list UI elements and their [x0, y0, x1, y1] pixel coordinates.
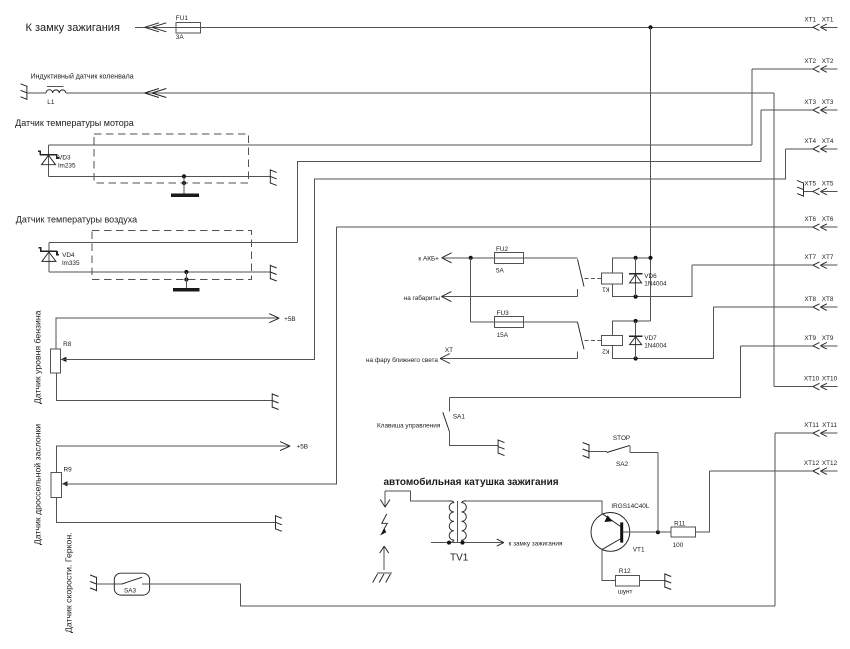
svg-text:XT7: XT7: [804, 254, 816, 261]
wire VD4 bottom to chassis: [49, 271, 270, 273]
fuse FU1 3A: [176, 15, 201, 41]
wire K2 coil bottom rail to XT8 riser: [613, 307, 714, 358]
wire SA1 to XT9 riser: [450, 346, 741, 398]
relay K1 contact blade: [578, 259, 585, 286]
node XT6 terminal pair: [804, 216, 837, 230]
node XT8 terminal pair: [804, 296, 837, 310]
wire K1 coil top rail: [613, 258, 651, 273]
svg-text:шунт: шунт: [618, 589, 633, 596]
svg-text:lm335: lm335: [62, 260, 80, 267]
svg-text:XT5: XT5: [804, 181, 816, 188]
wire down to earth bar (air temp): [185, 272, 187, 288]
svg-text:К2: К2: [602, 348, 610, 355]
svg-text:XT: XT: [445, 347, 453, 354]
switch SA2 STOP: [589, 435, 658, 468]
svg-text:XT1: XT1: [822, 16, 834, 23]
svg-text:К замку зажигания: К замку зажигания: [26, 22, 120, 34]
chassis ground below R9: [276, 515, 282, 531]
svg-text:R12: R12: [619, 568, 631, 575]
node XT7 terminal pair: [804, 254, 837, 268]
wire R9 top to +5V arrow: [56, 446, 290, 472]
node junction TV1 secondary bottom: [447, 541, 451, 545]
wire to XT1: [201, 26, 813, 28]
relay K2 contact pin: [577, 352, 579, 359]
wire to XT10: [774, 386, 813, 388]
wire to XT5: [804, 191, 813, 193]
svg-text:+5В: +5В: [297, 444, 309, 451]
svg-text:R9: R9: [64, 466, 73, 473]
svg-text:+5В: +5В: [284, 316, 296, 323]
wire TV1 bottom to ignition lock: [431, 542, 504, 544]
svg-text:XT9: XT9: [822, 335, 834, 342]
fuse FU3 15A: [494, 310, 523, 339]
wire branch down to FU3: [470, 258, 472, 322]
svg-text:VD6: VD6: [644, 273, 657, 280]
reed switch SA3: [114, 573, 149, 595]
node "к АКБ+" arrow: [418, 253, 451, 263]
node "на габариты" arrow: [404, 292, 452, 302]
wire K2 coil top rail: [613, 321, 651, 335]
svg-text:VT1: VT1: [633, 547, 645, 554]
svg-text:к замку зажигания: к замку зажигания: [509, 540, 563, 547]
node junction at box edge: [182, 181, 186, 185]
wire VD3 bottom to chassis: [49, 175, 271, 177]
dashed sensor box (motor temp): [94, 134, 248, 183]
node XT5 terminal pair: [804, 181, 837, 195]
svg-text:XT12: XT12: [822, 460, 838, 467]
wire XT3 riser: [760, 110, 762, 161]
chassis ground at SA2: [583, 443, 589, 459]
fuse FU2 5A: [494, 246, 523, 274]
wire AKB+ to K1 blade: [442, 257, 578, 259]
svg-text:VD4: VD4: [62, 252, 75, 259]
wire R9 bottom to chassis: [56, 498, 275, 523]
node junction TV1 primary bottom: [461, 541, 465, 545]
wire K1 contact to "на габариты": [441, 296, 577, 298]
svg-text:автомобильная катушка зажигани: автомобильная катушка зажигания: [384, 476, 559, 488]
node XT9 terminal pair: [804, 335, 837, 349]
svg-text:XT6: XT6: [822, 216, 834, 223]
wire R11 to XT12 riser: [696, 471, 710, 532]
svg-text:SA3: SA3: [124, 588, 137, 595]
node junction XT1-wire / vertical bus: [648, 25, 652, 29]
chassis ground below R8: [272, 393, 278, 409]
node junction gate / SA2: [656, 530, 660, 534]
node "к замку зажигания" arrow: [497, 539, 563, 547]
svg-text:IRGS14C40L: IRGS14C40L: [611, 503, 649, 510]
wire VD3 top to XT2 jog: [49, 144, 753, 146]
svg-text:К1: К1: [602, 286, 610, 293]
node XT3 terminal pair: [804, 99, 837, 113]
wire to XT4: [786, 148, 813, 150]
wire FU3 to K2 blade: [471, 321, 578, 323]
node XT12 terminal pair: [804, 460, 838, 474]
chassis ground at XT5: [797, 181, 803, 197]
svg-text:Индуктивный датчик коленвала: Индуктивный датчик коленвала: [31, 73, 134, 81]
svg-text:XT6: XT6: [804, 216, 816, 223]
svg-text:XT4: XT4: [822, 138, 834, 145]
diode VD3 lm235 (zener, temp sensor): [38, 145, 76, 176]
svg-text:SA2: SA2: [616, 461, 629, 468]
transistor VT1 IRGS14C40L: [591, 503, 650, 554]
node junction VD7 top: [634, 319, 638, 323]
wire to XT6: [337, 226, 813, 228]
svg-text:STOP: STOP: [613, 435, 630, 442]
svg-text:100: 100: [673, 542, 684, 549]
node XT10 terminal pair: [804, 376, 838, 390]
svg-text:XT1: XT1: [804, 16, 816, 23]
wire K2 contact to "на фару ближнего света": [440, 358, 578, 360]
wire to XT3: [761, 109, 813, 111]
wire to XT2: [752, 68, 813, 70]
svg-text:Клавиша управления: Клавиша управления: [377, 422, 441, 429]
svg-text:XT3: XT3: [804, 99, 816, 106]
node +5B arrow (R9): [280, 442, 308, 451]
svg-text:1N4004: 1N4004: [644, 343, 667, 350]
spark lightning symbol: [380, 514, 387, 536]
dashed sensor box (air temp): [92, 231, 251, 280]
wire from lock label to FU1: [135, 26, 201, 28]
spark gap electrode (down arrow): [380, 491, 390, 507]
ground earth bar (motor temp): [171, 193, 199, 196]
connector chevrons on L1 wire: [145, 89, 167, 98]
wire VD4 top to riser: [49, 242, 298, 244]
relay K1 contact pin: [577, 289, 579, 297]
wire vertical bus from XT1 wire down to relay K2 rail: [650, 27, 652, 321]
wire ground to L1: [27, 92, 46, 94]
svg-text:FU3: FU3: [497, 310, 510, 317]
diode VD4 lm335 (zener, temp sensor): [38, 243, 80, 272]
ground earth under spark gap: [373, 573, 393, 582]
diode VD7 1N4004: [629, 321, 667, 359]
node junction at air box edge: [184, 277, 188, 281]
wire coil HV step: [385, 491, 449, 501]
resistor R11 100: [671, 521, 695, 550]
node junction VD7 bottom: [634, 356, 638, 360]
wire to XT12: [709, 470, 813, 472]
chassis ground at R12: [665, 573, 671, 589]
svg-text:на фару ближнего света: на фару ближнего света: [366, 356, 438, 364]
svg-text:XT11: XT11: [822, 422, 837, 429]
wire R8 wiper to XT4 riser: [60, 149, 785, 360]
node junction on VD4 bottom wire: [184, 270, 188, 274]
svg-text:Датчик уровня бензина: Датчик уровня бензина: [33, 310, 43, 404]
svg-text:VD3: VD3: [58, 154, 71, 161]
node XT1 terminal pair: [804, 16, 837, 30]
node XT4 terminal pair: [804, 138, 837, 152]
svg-text:к АКБ+: к АКБ+: [418, 256, 439, 263]
transformer TV1 (ignition coil): [449, 501, 469, 564]
svg-text:lm235: lm235: [58, 162, 76, 169]
chassis ground right of air-temp box: [270, 265, 276, 281]
connector chevrons on ignition wire: [145, 23, 167, 32]
svg-text:XT8: XT8: [822, 296, 834, 303]
chassis ground below SA1: [498, 439, 504, 455]
chassis ground at SA3: [90, 575, 96, 591]
svg-text:VD7: VD7: [644, 335, 657, 342]
wire XT11 bus down: [774, 433, 776, 606]
svg-text:R11: R11: [674, 521, 686, 528]
node junction VD6 bottom: [634, 295, 638, 299]
wire XT2 riser: [751, 69, 753, 145]
svg-text:Датчик дроссельной заслонки: Датчик дроссельной заслонки: [33, 424, 43, 545]
wire R8 bottom to chassis: [57, 373, 273, 400]
svg-text:XT12: XT12: [804, 460, 820, 467]
svg-text:3A: 3A: [176, 34, 185, 41]
wire SA3 to XT11 bus: [150, 584, 776, 606]
svg-text:XT4: XT4: [804, 138, 816, 145]
svg-text:TV1: TV1: [450, 553, 469, 564]
svg-text:XT3: XT3: [822, 99, 834, 106]
chassis ground at L1: [21, 84, 27, 100]
node junction rail/bus: [648, 256, 652, 260]
relay K1 coil: [602, 273, 623, 292]
svg-text:XT9: XT9: [804, 335, 816, 342]
node +5B arrow (R8): [269, 314, 295, 323]
R8 wiper arrow: [61, 357, 67, 362]
wire L1 to right bus: [66, 92, 774, 94]
svg-text:15A: 15A: [497, 332, 509, 339]
svg-text:Датчик скорости. Геркон.: Датчик скорости. Геркон.: [64, 532, 74, 633]
svg-text:SA1: SA1: [453, 414, 466, 421]
wire R12 to chassis: [639, 580, 664, 582]
node XT2 terminal pair: [804, 58, 837, 72]
node junction on VD3 bottom wire: [182, 174, 186, 178]
wire SA2 to gate node: [657, 453, 659, 533]
resistor R8 (potentiometer, fuel level): [50, 341, 71, 373]
svg-text:XT7: XT7: [822, 254, 834, 261]
wire to XT8: [713, 306, 813, 308]
wire to XT7: [692, 264, 813, 266]
svg-text:Датчик температуры воздуха: Датчик температуры воздуха: [16, 214, 137, 224]
wire K1 coil bottom rail to XT7 riser: [613, 265, 692, 296]
svg-text:L1: L1: [47, 99, 55, 106]
svg-text:XT5: XT5: [822, 181, 834, 188]
node XT11 terminal pair: [804, 422, 838, 436]
spark gap electrode (up arrow): [380, 546, 389, 570]
node junction VD6 top: [634, 256, 638, 260]
wire riser VD4 to XT3 feed: [297, 161, 761, 242]
relay K2 coil: [602, 335, 623, 354]
svg-text:Датчик температуры мотора: Датчик температуры мотора: [15, 118, 134, 128]
resistor R9 (potentiometer, throttle): [51, 466, 72, 497]
inductor L1: [46, 87, 66, 106]
wire chassis to SA3: [97, 583, 122, 585]
R9 wiper arrow: [62, 481, 68, 486]
wire to XT9: [741, 345, 813, 347]
wire TV1 primary top to VT1 collector: [466, 501, 602, 514]
svg-text:XT8: XT8: [804, 296, 816, 303]
svg-text:XT11: XT11: [804, 422, 819, 429]
svg-text:на габариты: на габариты: [404, 294, 441, 302]
wire R9 wiper to XT6 rail: [61, 227, 336, 484]
wire R8 top to +5V arrow: [56, 318, 279, 349]
svg-text:XT2: XT2: [822, 58, 834, 65]
dashed mechanical link K2: [585, 339, 602, 341]
wire down to earth bar: [183, 176, 185, 193]
svg-text:XT10: XT10: [822, 376, 838, 383]
wire bus L1 down to XT10: [773, 93, 775, 387]
relay K2 contact blade: [578, 322, 585, 349]
chassis ground right of motor-temp box: [270, 169, 276, 185]
svg-text:1N4004: 1N4004: [644, 280, 667, 287]
svg-text:XT2: XT2: [804, 58, 816, 65]
svg-text:FU1: FU1: [176, 15, 189, 22]
node "на фару ближнего света" arrow with XT tag: [366, 347, 453, 364]
switch SA1 (control key): [443, 398, 498, 446]
svg-text:5A: 5A: [496, 267, 505, 274]
svg-text:R8: R8: [63, 341, 72, 348]
svg-text:XT10: XT10: [804, 376, 820, 383]
resistor R12 shunt: [616, 568, 640, 595]
svg-text:FU2: FU2: [496, 246, 509, 253]
ground earth bar (air temp): [173, 288, 199, 291]
wire VT1 emitter down to R12: [602, 551, 616, 581]
wire to XT11: [775, 432, 813, 434]
node junction AKB/FU3 branch: [469, 256, 473, 260]
wire VT1 gate to R11: [623, 531, 672, 533]
diode VD6 1N4004: [629, 258, 667, 297]
dashed mechanical link K1: [585, 278, 602, 280]
